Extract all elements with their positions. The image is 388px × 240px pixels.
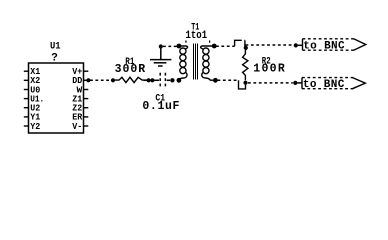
pin label Z1 [72,93,82,104]
svg-text:V-: V- [72,121,82,132]
pin label Y1 [30,112,40,123]
label T1 refdes [191,23,199,34]
svg-text:to BNC: to BNC [303,40,345,52]
wire top jog down [244,40,246,46]
pin label U1. [30,93,44,104]
pin label ER [72,112,82,123]
junction dot left of R1 [111,78,115,82]
wire R2 bottom to BNC flag (dashed) [248,82,293,84]
wire bottom jog down [239,80,246,89]
pin label V+ [72,66,82,77]
pin DD [84,79,89,81]
transformer secondary bottom junction dot [213,78,218,83]
wire secondary top to jog (dashed) [216,45,235,47]
junction dots left of C1 [147,78,155,82]
pin Y2 [24,125,29,127]
wire top jog over (dashed) [239,39,245,41]
resistor R1 [115,77,147,82]
svg-text:Y2: Y2 [30,121,40,132]
wire DD to R1 (dashed) [90,79,112,81]
ground symbol [150,47,171,67]
pin label U0 [30,84,40,95]
wire R1 to C1 [144,79,147,81]
transformer T1 core [193,43,198,79]
label to BNC (bottom) [303,79,345,91]
pin U1 [24,98,29,100]
junction dot at DD pin [86,78,90,82]
pin label W [77,84,83,95]
transformer secondary top junction dot [212,44,217,49]
transformer T1 primary winding [179,46,188,80]
label R1 refdes [125,57,134,68]
svg-text:300R: 300R [115,63,146,76]
junction dot before bottom BNC flag [293,81,297,85]
label C1 refdes [155,94,165,105]
wire ground to transformer primary top (dashed) [163,45,177,47]
label R2 value 100R [253,63,285,76]
transformer T1 polarity tick primary [185,41,187,43]
pin label Z2 [72,103,82,114]
pin label Y2 [30,121,40,132]
pin X2 [24,79,29,81]
wire top jog up [235,40,239,46]
pin W [84,89,89,91]
junction dot R2 top [244,46,248,50]
pin U2 [24,107,29,109]
pin V+ [84,70,89,72]
transformer T1 polarity tick secondary [209,41,211,43]
wire into top BNC flag [298,44,303,46]
pin label X2 [30,75,40,86]
junction dot R2 bottom [243,81,247,85]
wire into C1 [154,79,159,81]
pin V- [84,125,89,127]
resistor R2 [243,50,248,80]
wire R2 top to BNC flag (dashed) [246,44,294,46]
label U1 value ? [51,52,58,64]
junction dot before top BNC flag [294,43,298,47]
svg-text:to BNC: to BNC [303,79,345,91]
label U1 refdes [50,40,61,52]
svg-text:?: ? [51,52,58,64]
wire secondary bottom to jog (dashed) [218,79,239,81]
pin label U2 [30,103,40,114]
svg-text:U1: U1 [50,40,61,52]
pin U0 [24,89,29,91]
pin label DD [72,75,82,86]
transformer T1 secondary winding [201,46,215,80]
pin label V- [72,121,82,132]
transformer T1 primary top junction dot [177,44,182,49]
pin ER [84,116,89,118]
port flag to BNC (top) [303,39,366,50]
label to BNC (top) [303,40,345,52]
svg-text:1to1: 1to1 [186,30,208,42]
pin Z1 [84,98,89,100]
label R2 refdes [262,56,271,67]
svg-text:100R: 100R [253,63,285,76]
pin X1 [24,70,29,72]
pin Y1 [24,116,29,118]
label T1 value 1to1 [186,30,208,42]
IC U1 body [29,63,84,133]
junction dots right of C1 [170,78,181,83]
capacitor C1 plates (dashed) [160,73,165,88]
label R1 value 300R [115,63,146,76]
pin Z2 [84,107,89,109]
label C1 value 0.1uF [142,100,179,113]
svg-text:0.1uF: 0.1uF [142,100,179,113]
pin label X1 [30,66,40,77]
wire C1 to transformer [167,79,170,81]
ground junction dot [159,44,163,48]
port flag to BNC (bottom) [302,78,365,89]
wire into bottom BNC flag [297,82,302,84]
